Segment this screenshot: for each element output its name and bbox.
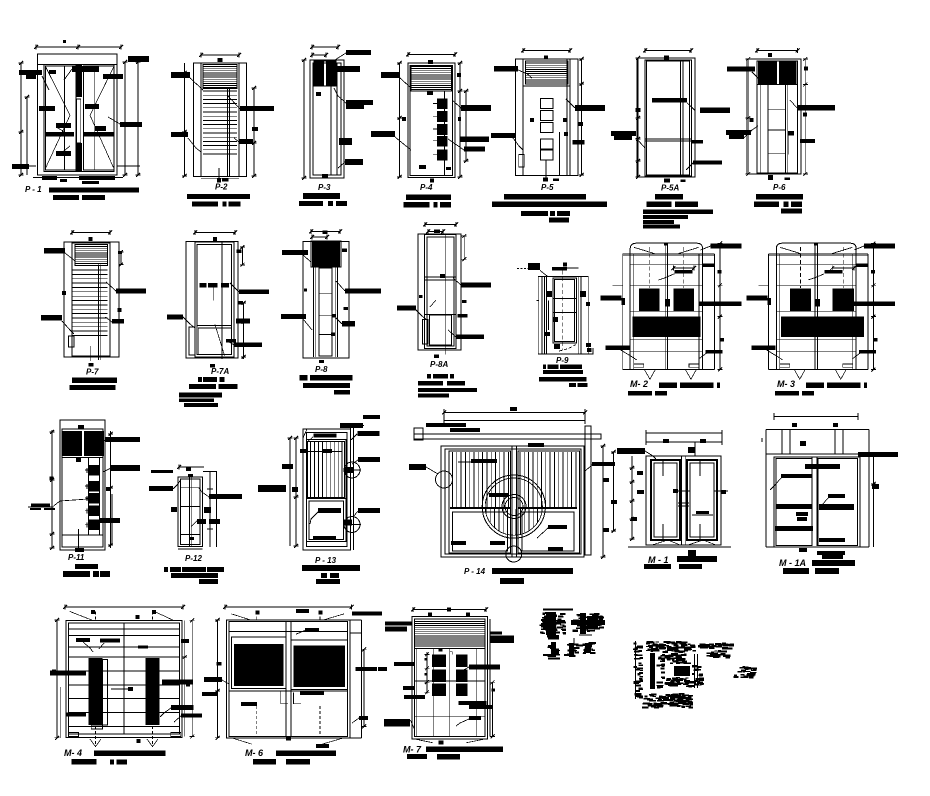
svg-text:M- 4: M- 4 <box>64 748 82 758</box>
svg-text:P - 1: P - 1 <box>25 185 42 194</box>
svg-text:P-9: P-9 <box>556 356 569 365</box>
svg-text:P-8: P-8 <box>315 365 328 374</box>
svg-text:M - 1: M - 1 <box>648 555 669 565</box>
svg-text:M- 7: M- 7 <box>403 745 422 755</box>
svg-text:P-11: P-11 <box>68 553 85 562</box>
svg-text:P-4: P-4 <box>420 183 433 192</box>
svg-text:P - 13: P - 13 <box>315 556 337 565</box>
svg-text:P - 14: P - 14 <box>464 567 486 576</box>
svg-text:P-3: P-3 <box>318 183 331 192</box>
svg-text:M - 1A: M - 1A <box>779 558 806 568</box>
svg-text:M- 3: M- 3 <box>777 379 795 389</box>
svg-text:P-8A: P-8A <box>430 360 448 369</box>
svg-text:P-7A: P-7A <box>211 367 229 376</box>
svg-text:M- 6: M- 6 <box>245 748 264 758</box>
svg-text:M- 2: M- 2 <box>630 379 648 389</box>
svg-text:P-6: P-6 <box>773 183 786 192</box>
svg-text:P-7: P-7 <box>86 368 99 377</box>
svg-text:P-2: P-2 <box>215 183 228 192</box>
svg-text:P-12: P-12 <box>185 554 202 563</box>
svg-text:P-5A: P-5A <box>661 184 679 193</box>
svg-text:P-5: P-5 <box>541 183 554 192</box>
